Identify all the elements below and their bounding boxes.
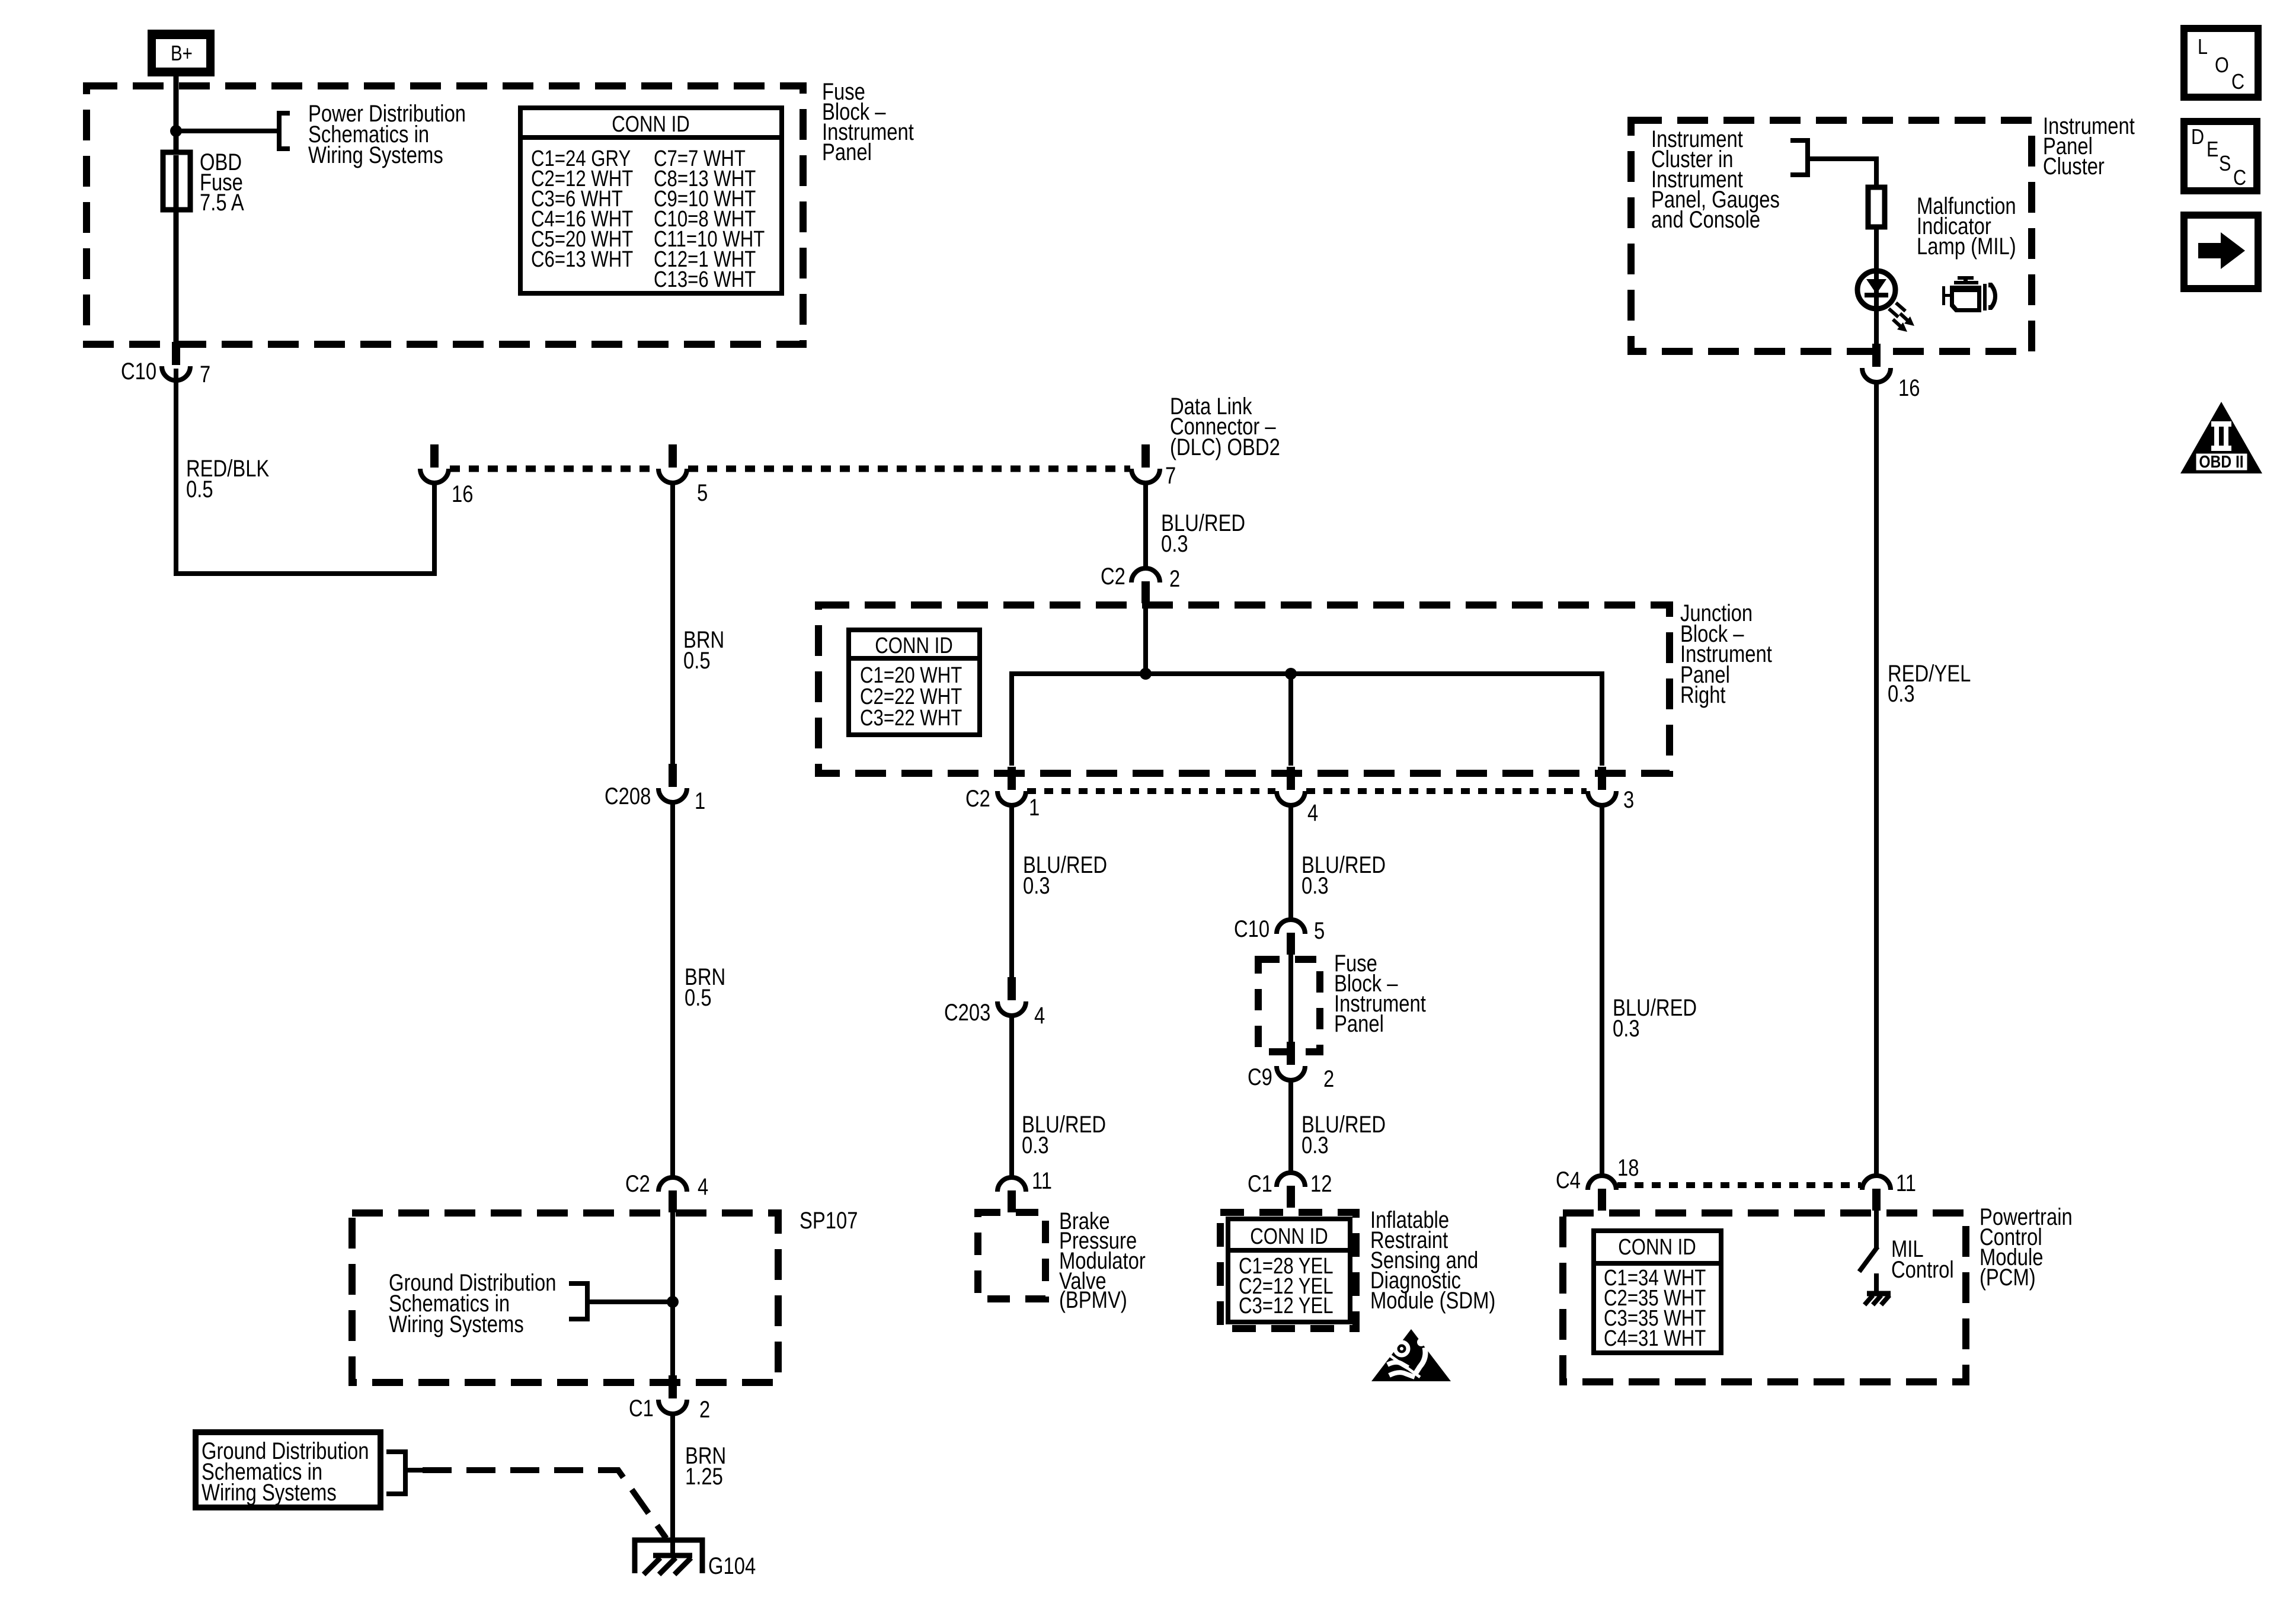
svg-text:0.3: 0.3 bbox=[1302, 1132, 1329, 1158]
svg-text:18: 18 bbox=[1617, 1154, 1639, 1181]
fuse OBD 7.5 A bbox=[163, 152, 190, 210]
dotted row pin1 pin4 bbox=[1027, 788, 1275, 794]
connector 16 bbox=[420, 444, 449, 483]
svg-text:Lamp (MIL): Lamp (MIL) bbox=[1917, 233, 2016, 260]
pointer bracket cluster bbox=[1790, 140, 1808, 175]
svg-text:7.5 A: 7.5 A bbox=[200, 189, 244, 216]
svg-text:0.3: 0.3 bbox=[1613, 1015, 1640, 1042]
wire C9-2 down to C1-12 bbox=[1288, 1080, 1293, 1174]
wire B+ to fuse bbox=[174, 76, 179, 153]
CONN ID table junction block bbox=[849, 630, 980, 735]
wire 16 down to PCM 11 bbox=[1874, 382, 1879, 1177]
fuse block dashed box: Fuse Block - Instrument Panel bbox=[87, 86, 803, 344]
pointer bracket SP107 bbox=[569, 1283, 587, 1319]
arrow reference box bbox=[2184, 215, 2258, 289]
connector pin 3 bbox=[1588, 767, 1616, 805]
wire through small fuse block bbox=[1288, 954, 1293, 1044]
LOC reference box bbox=[2184, 28, 2258, 97]
connector C1 pin 12 bbox=[1277, 1173, 1305, 1208]
CONN ID table SDM bbox=[1228, 1219, 1350, 1322]
connector pin 11 BPMV bbox=[997, 1177, 1026, 1212]
svg-text:O: O bbox=[2215, 54, 2229, 78]
svg-text:CONN ID: CONN ID bbox=[1618, 1235, 1696, 1260]
svg-text:(BPMV): (BPMV) bbox=[1059, 1286, 1127, 1313]
svg-text:C1: C1 bbox=[629, 1395, 654, 1422]
wire pin4 down to C10-5 bbox=[1288, 805, 1293, 921]
CONN ID table PCM bbox=[1594, 1231, 1721, 1353]
wire through SP107 bbox=[670, 1212, 675, 1376]
MIL control switch bbox=[1859, 1210, 1878, 1294]
svg-text:C6=13 WHT: C6=13 WHT bbox=[531, 247, 633, 272]
DESC reference box bbox=[2184, 121, 2257, 191]
bus drop to pin 3 bbox=[1600, 674, 1604, 766]
pointer bracket power distribution bbox=[279, 113, 290, 149]
resistor lamp element bbox=[1868, 187, 1885, 227]
connector pin 4 bbox=[1277, 767, 1305, 805]
connector C4 pin 18 bbox=[1588, 1176, 1616, 1211]
dashed data-link wire 16 to 5 bbox=[450, 466, 657, 472]
svg-text:C203: C203 bbox=[944, 999, 990, 1026]
svg-text:C3=22 WHT: C3=22 WHT bbox=[860, 706, 962, 731]
connector C1 pin 2 bbox=[658, 1375, 687, 1414]
PCM dashed box bbox=[1563, 1213, 1966, 1382]
connector C10 pin 5 bbox=[1277, 920, 1305, 955]
wire C208 to C2-4 bbox=[670, 802, 675, 1179]
svg-text:S: S bbox=[2219, 152, 2231, 176]
junction block dashed box bbox=[818, 605, 1670, 773]
svg-text:1: 1 bbox=[1029, 794, 1040, 821]
SDM dashed box bbox=[1220, 1212, 1356, 1329]
svg-text:4: 4 bbox=[1307, 799, 1318, 826]
engine icon check engine bbox=[1942, 276, 1997, 312]
wire C1-2 to G104 bbox=[670, 1414, 675, 1555]
pointer bracket ground box bbox=[386, 1452, 405, 1494]
wire pin1 down to C203 bbox=[1009, 805, 1014, 978]
wire fuse to C10 pin bbox=[174, 210, 179, 347]
wire 5 down to C208 bbox=[670, 483, 675, 764]
SP107 dashed box bbox=[352, 1213, 778, 1382]
B+ terminal bbox=[148, 30, 215, 76]
svg-text:Wiring Systems: Wiring Systems bbox=[308, 142, 443, 168]
svg-text:CONN ID: CONN ID bbox=[1250, 1224, 1328, 1249]
junction dot bus DLC bbox=[1140, 668, 1152, 680]
svg-text:C1: C1 bbox=[1248, 1170, 1272, 1197]
connector 7 DLC bbox=[1131, 444, 1160, 483]
svg-text:C2: C2 bbox=[1101, 563, 1125, 590]
svg-text:B+: B+ bbox=[171, 41, 193, 65]
wire C203 down to pin 11 bbox=[1009, 1016, 1014, 1179]
LED indicator MIL lamp bbox=[1857, 271, 1895, 309]
boxed label Ground Distribution bbox=[196, 1432, 380, 1507]
svg-text:0.3: 0.3 bbox=[1888, 680, 1915, 707]
svg-text:Module (SDM): Module (SDM) bbox=[1370, 1287, 1495, 1314]
svg-text:1: 1 bbox=[695, 788, 705, 814]
svg-text:C: C bbox=[2233, 167, 2246, 190]
connector 5 bbox=[658, 444, 687, 483]
svg-text:0.3: 0.3 bbox=[1302, 872, 1329, 899]
svg-text:C2: C2 bbox=[625, 1170, 650, 1197]
connector C10 pin 7 bbox=[162, 342, 190, 380]
airbag warning triangle bbox=[1371, 1329, 1451, 1381]
svg-text:CONN ID: CONN ID bbox=[875, 633, 953, 658]
svg-text:C3=12 YEL: C3=12 YEL bbox=[1239, 1294, 1334, 1318]
svg-text:0.5: 0.5 bbox=[683, 647, 711, 674]
svg-text:11: 11 bbox=[1896, 1170, 1916, 1196]
svg-text:0.5: 0.5 bbox=[186, 476, 213, 502]
svg-text:Panel: Panel bbox=[822, 139, 872, 165]
svg-text:C4: C4 bbox=[1556, 1167, 1581, 1193]
svg-text:0.3: 0.3 bbox=[1022, 1132, 1049, 1158]
svg-text:(PCM): (PCM) bbox=[1980, 1264, 2036, 1291]
svg-text:Control: Control bbox=[1891, 1256, 1954, 1283]
svg-text:Wiring Systems: Wiring Systems bbox=[202, 1479, 337, 1506]
BPMV dashed box bbox=[978, 1212, 1045, 1299]
svg-text:C10: C10 bbox=[1234, 916, 1269, 942]
svg-text:12: 12 bbox=[1310, 1170, 1332, 1197]
svg-text:7: 7 bbox=[200, 361, 210, 388]
wire resistor to LED bbox=[1874, 227, 1879, 272]
svg-text:0.5: 0.5 bbox=[685, 984, 712, 1011]
svg-text:(DLC) OBD2: (DLC) OBD2 bbox=[1170, 434, 1280, 460]
svg-text:4: 4 bbox=[1034, 1002, 1045, 1029]
svg-text:Cluster: Cluster bbox=[2043, 153, 2105, 180]
svg-text:0.3: 0.3 bbox=[1023, 872, 1050, 899]
wire pin3 down to C4-18 bbox=[1600, 805, 1604, 1177]
svg-text:2: 2 bbox=[699, 1396, 710, 1423]
connector C203 pin 4 bbox=[997, 977, 1026, 1016]
svg-text:11: 11 bbox=[1032, 1167, 1052, 1194]
svg-text:C208: C208 bbox=[605, 783, 651, 809]
svg-text:Panel: Panel bbox=[1334, 1010, 1384, 1037]
connector C2 pin 4 bbox=[658, 1177, 687, 1212]
svg-text:G104: G104 bbox=[708, 1553, 756, 1579]
svg-text:OBD II: OBD II bbox=[2199, 452, 2243, 471]
connector C208 pin 1 bbox=[658, 764, 687, 802]
bus drop to pin 1 bbox=[1009, 674, 1014, 766]
svg-text:Wiring Systems: Wiring Systems bbox=[389, 1311, 524, 1337]
svg-text:C13=6 WHT: C13=6 WHT bbox=[654, 267, 756, 292]
svg-text:SP107: SP107 bbox=[800, 1207, 858, 1234]
svg-text:C: C bbox=[2231, 71, 2244, 94]
wire 7 down to C2-2 bbox=[1143, 483, 1148, 569]
ground G104 bbox=[635, 1540, 702, 1574]
OBD II warning triangle bbox=[2180, 402, 2262, 473]
junction dot bus pin4 bbox=[1285, 668, 1297, 680]
wire jog to connector 16 bbox=[176, 369, 434, 574]
svg-text:5: 5 bbox=[1314, 917, 1325, 944]
wire bracket to lamp bbox=[1808, 159, 1876, 188]
bus bar bbox=[1009, 671, 1604, 676]
svg-text:C2: C2 bbox=[965, 785, 990, 812]
svg-text:4: 4 bbox=[698, 1173, 708, 1200]
connector C2 pin 2 bbox=[1131, 568, 1160, 603]
light rays bbox=[1889, 303, 1908, 327]
CONN ID table fuse block bbox=[520, 108, 782, 293]
svg-text:Right: Right bbox=[1680, 681, 1726, 708]
wire bracket to junction dot bbox=[587, 1299, 673, 1304]
chassis ground MIL bbox=[1865, 1294, 1891, 1305]
cluster dashed box bbox=[1631, 120, 2032, 351]
dotted row C4-18 to 11 bbox=[1617, 1182, 1861, 1188]
connector C9 pin 2 bbox=[1277, 1042, 1305, 1080]
junction dot SP107 bbox=[667, 1296, 679, 1308]
svg-text:C9: C9 bbox=[1248, 1064, 1272, 1090]
connector C2 pin 1 bbox=[997, 767, 1026, 805]
wire C2-2 down to bus bbox=[1143, 603, 1148, 674]
svg-text:and Console: and Console bbox=[1651, 206, 1760, 233]
dotted row pin4 pin3 bbox=[1306, 788, 1587, 794]
svg-text:C4=31 WHT: C4=31 WHT bbox=[1604, 1326, 1706, 1351]
small fuse block dashed box bbox=[1258, 959, 1320, 1052]
svg-text:E: E bbox=[2207, 138, 2218, 162]
svg-text:3: 3 bbox=[1623, 786, 1634, 813]
svg-text:5: 5 bbox=[697, 479, 708, 506]
junction dot B+ node bbox=[170, 125, 182, 137]
svg-text:0.3: 0.3 bbox=[1161, 530, 1188, 557]
wire to power distribution bracket bbox=[176, 129, 277, 133]
svg-text:16: 16 bbox=[452, 481, 473, 507]
svg-text:2: 2 bbox=[1169, 565, 1180, 592]
bus drop to pin 4 bbox=[1288, 674, 1293, 766]
svg-text:L: L bbox=[2198, 36, 2208, 59]
svg-text:16: 16 bbox=[1898, 375, 1920, 401]
wire LED down to pin 16 bbox=[1874, 308, 1879, 345]
svg-text:C10: C10 bbox=[121, 358, 156, 385]
svg-text:CONN ID: CONN ID bbox=[612, 112, 690, 137]
dashed reference line to ground bbox=[405, 1468, 423, 1473]
connector pin 11 PCM bbox=[1862, 1176, 1891, 1211]
svg-text:1.25: 1.25 bbox=[685, 1463, 723, 1490]
dashed data-link wire 5 to 7 bbox=[688, 466, 1130, 472]
connector pin 16 cluster bbox=[1862, 344, 1891, 382]
svg-text:2: 2 bbox=[1323, 1065, 1334, 1092]
svg-text:7: 7 bbox=[1165, 462, 1176, 489]
svg-text:D: D bbox=[2191, 126, 2204, 149]
